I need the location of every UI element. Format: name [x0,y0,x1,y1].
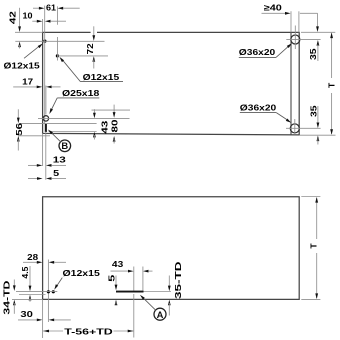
panel 2 hole dot 2 [52,290,55,293]
svg-text:35: 35 [308,105,318,117]
svg-text:5: 5 [53,168,59,178]
svg-text:28: 28 [27,252,38,262]
hole A column extension [133,267,135,338]
dimension 4.5 arrows [29,266,32,302]
label Ø12x15 hole 2 [60,57,124,82]
hole Ø25 centerlines [38,86,130,119]
left edge extension above [42,19,44,32]
hole 2 column extension [57,6,59,60]
dimension 35-TD arrows [168,276,171,316]
svg-text:56: 56 [14,123,24,136]
label Ø12x15 panel 2 [54,268,100,290]
panel 2 top edge right extension [301,196,320,198]
dimension 42 arrows [18,8,21,49]
bottom edge left extension [18,135,50,137]
dimension 10 arrows [32,20,66,23]
panel 2 hole dot 1 [47,290,50,293]
svg-text:Ø12x15: Ø12x15 [63,268,101,278]
svg-text:Ø12x15: Ø12x15 [4,60,41,70]
svg-text:5: 5 [106,274,116,281]
dimension T (panel 2) line and arrows [315,197,318,299]
bottom edge right extension [300,134,336,136]
hole 2 Ø12x15 dot [56,54,59,57]
slot A row extension right [144,291,172,293]
panel 2 hole bottom reference line [19,294,46,296]
left edge extension below [42,133,44,166]
dimension 61 arrows [33,7,80,10]
dimension 35 top arrows [317,40,320,61]
panel 2 bottom edge left extension [12,298,43,300]
svg-text:35: 35 [308,48,318,60]
svg-text:80: 80 [109,119,119,132]
panel 2 hole row centerline [16,291,57,293]
slot A right extension [142,267,144,291]
svg-text:30: 30 [20,309,33,319]
top edge right extension [301,31,335,33]
panel 1 outline (top view) [43,32,300,134]
slot B top extension line [20,123,96,125]
hole 1 row centerline [15,40,104,42]
svg-text:Ø36x20: Ø36x20 [239,47,276,57]
dimension T-56+TD line and arrows [43,330,134,333]
dimension T (panel 1) line and arrows [330,33,333,135]
svg-text:61: 61 [46,2,56,12]
svg-text:B: B [61,140,68,151]
svg-text:10: 10 [23,11,33,21]
dimension 35 bottom arrows [317,106,320,145]
label Ø36x20 bottom [240,103,291,123]
dimension 80 arrows [113,105,116,144]
callout circle B [59,140,71,152]
svg-text:43: 43 [100,120,110,133]
svg-text:Ø36x20: Ø36x20 [240,103,277,113]
svg-text:35-TD: 35-TD [173,261,183,299]
slot B thick bar [45,124,47,132]
svg-text:Ø25x18: Ø25x18 [62,88,100,98]
svg-text:T: T [308,243,318,249]
dimension 56 arrows [17,109,20,150]
svg-text:4.5: 4.5 [20,266,30,278]
hole 1 Ø12x15 dot [43,40,46,43]
dimension 43 (panel 2) arrows [111,270,153,273]
slot column extension below [45,132,47,180]
svg-text:42: 42 [7,11,17,24]
top edge left extension [15,31,43,33]
hole top-right Ø36x20 circle [291,35,300,44]
dimension 5 (panel 2) arrows [115,276,118,306]
label Ø12x15 hole 1 [4,43,43,70]
svg-text:34-TD: 34-TD [1,281,11,315]
label Ø25x18 [49,88,99,114]
callout B leader [48,130,61,143]
slot B bottom extension line [49,131,97,133]
dimension 43 top extension line [92,109,131,111]
dimension ≥40 extension lines [291,11,299,32]
hole 2 row centerline [57,55,108,57]
svg-text:17: 17 [22,77,33,87]
hole Ø25x18 circle [43,116,48,121]
label Ø36x20 top [239,43,292,57]
hole bottom-right centerlines [286,119,321,135]
dimension 43 (panel 1) line and arrows [93,109,96,139]
dimension ≥40 line and arrow [262,12,291,15]
svg-text:Ø12x15: Ø12x15 [83,72,120,82]
panel 2 left edge extension below [42,299,44,338]
panel 2 hole column centerline [47,260,49,323]
dimension 30 arrows [18,319,71,322]
dimension 17 arrows [13,86,60,89]
svg-text:T-56+TD: T-56+TD [64,327,113,337]
slot A thick bar [116,291,144,293]
panel 2 outline [43,197,300,300]
panel 1 inner rail line [290,32,292,134]
callout A leader [140,295,156,311]
dimension 28 arrows [23,261,66,264]
dimension 5 arrows [28,177,66,180]
dimension 72 arrows [91,26,97,68]
dimension 34-TD arrows [13,280,16,314]
svg-text:13: 13 [53,155,66,165]
svg-text:43: 43 [112,259,124,269]
hole bottom-right Ø36x20 circle [290,124,299,133]
panel 2 bottom edge right extension [301,298,320,300]
right-edge outside arrow (L leader) [300,13,319,32]
svg-text:T: T [327,82,337,88]
hole top-right centerlines [286,26,320,50]
svg-text:A: A [157,309,164,320]
hole 1 column centerline [44,6,46,124]
dimension 13 arrows [28,164,66,167]
svg-text:72: 72 [85,43,95,54]
callout circle A [154,308,166,320]
svg-text:≥40: ≥40 [264,2,282,12]
